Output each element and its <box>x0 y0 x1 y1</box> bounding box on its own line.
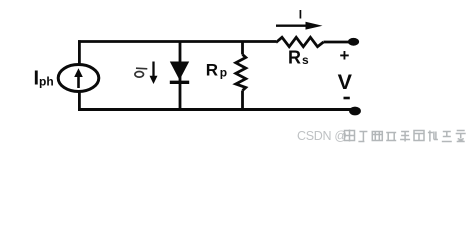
current source arrow <box>74 68 83 88</box>
svg-text:R: R <box>288 48 301 68</box>
label - <box>344 97 350 100</box>
terminal node + (top right dot) <box>348 38 359 46</box>
watermark chinese glyph blocks <box>345 130 466 142</box>
svg-text:ph: ph <box>39 75 54 89</box>
current source Iph circle <box>58 65 99 92</box>
svg-text:+: + <box>340 46 350 65</box>
svg-text:I: I <box>299 8 302 22</box>
wire bottom horizontal <box>78 108 351 111</box>
wire Rp branch vertical top stub <box>241 42 244 55</box>
current I arrow (top right) <box>276 22 323 30</box>
svg-text:s: s <box>302 53 309 67</box>
terminal node - (bottom right dot) <box>349 107 361 116</box>
svg-text:V: V <box>338 70 353 94</box>
resistor Rp zigzag <box>236 55 246 91</box>
wire top horizontal <box>78 40 276 43</box>
svg-text:R: R <box>206 61 218 80</box>
diode current arrow (down) <box>150 62 158 85</box>
svg-text:CSDN @: CSDN @ <box>297 129 347 143</box>
diode D1 <box>170 62 189 83</box>
diode current Id marker <box>135 68 147 77</box>
wire diode branch vertical <box>179 42 182 110</box>
wire from Rs to terminal <box>324 41 350 44</box>
svg-text:p: p <box>220 66 227 80</box>
wire left vertical <box>78 40 81 109</box>
wire Rp branch vertical bottom stub <box>241 91 244 110</box>
resistor Rs zigzag <box>276 37 324 46</box>
